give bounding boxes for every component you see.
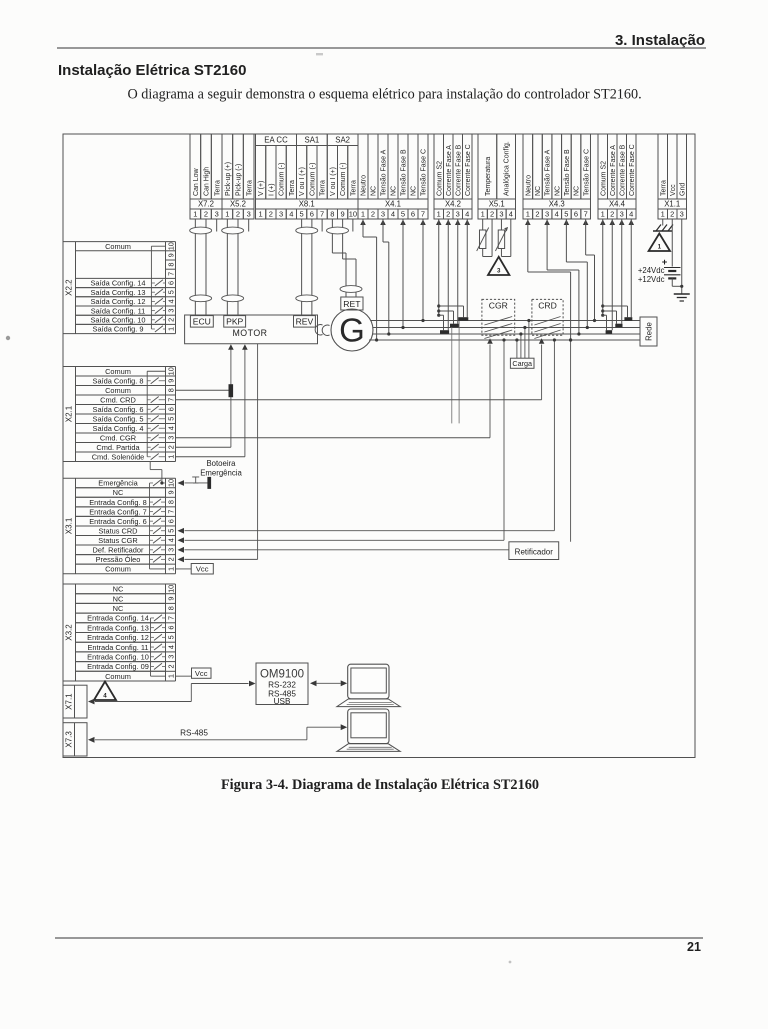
svg-text:Botoeira: Botoeira xyxy=(206,459,236,468)
svg-text:X2.1: X2.1 xyxy=(65,405,74,422)
svg-text:2: 2 xyxy=(166,445,175,449)
svg-text:NC: NC xyxy=(574,186,581,196)
svg-text:Comum (-): Comum (-) xyxy=(340,163,347,196)
svg-text:NC: NC xyxy=(113,604,124,613)
svg-text:2: 2 xyxy=(166,664,175,668)
svg-text:Entrada Config. 09: Entrada Config. 09 xyxy=(87,662,149,671)
svg-text:SA1: SA1 xyxy=(305,136,320,145)
svg-text:NC: NC xyxy=(113,488,124,497)
svg-text:NC: NC xyxy=(371,186,378,196)
svg-text:Comum (-): Comum (-) xyxy=(309,163,316,196)
svg-text:Analógica Config.: Analógica Config. xyxy=(504,141,511,196)
svg-text:X4.2: X4.2 xyxy=(445,200,461,209)
svg-text:I (+): I (+) xyxy=(268,183,275,196)
svg-text:X4.1: X4.1 xyxy=(385,200,401,209)
svg-text:Cmd. Solenóide: Cmd. Solenóide xyxy=(92,452,145,461)
svg-text:6: 6 xyxy=(574,210,578,219)
svg-text:USB: USB xyxy=(274,697,291,706)
svg-text:Pressão Óleo: Pressão Óleo xyxy=(96,555,141,564)
svg-text:Tensão Fase A: Tensão Fase A xyxy=(545,149,552,196)
svg-text:2: 2 xyxy=(610,210,614,219)
svg-text:1: 1 xyxy=(361,210,365,219)
svg-text:2: 2 xyxy=(166,557,175,561)
svg-text:Entrada Config. 12: Entrada Config. 12 xyxy=(87,633,149,642)
svg-text:X4.3: X4.3 xyxy=(549,200,565,209)
svg-text:8: 8 xyxy=(166,388,175,392)
svg-text:Saída Config. 11: Saída Config. 11 xyxy=(91,306,146,315)
svg-text:1: 1 xyxy=(166,674,175,678)
svg-text:ECU: ECU xyxy=(193,317,211,327)
svg-text:Status CRD: Status CRD xyxy=(98,526,137,535)
svg-text:Comum S2: Comum S2 xyxy=(600,161,607,196)
svg-text:Entrada Config. 13: Entrada Config. 13 xyxy=(87,623,149,632)
svg-text:4: 4 xyxy=(166,538,175,542)
svg-text:10: 10 xyxy=(166,367,175,375)
svg-text:Pick-up (-): Pick-up (-) xyxy=(236,164,243,196)
svg-text:1: 1 xyxy=(658,244,662,251)
svg-text:Comum (-): Comum (-) xyxy=(279,163,286,196)
svg-text:Entrada Config. 7: Entrada Config. 7 xyxy=(89,507,147,516)
svg-text:Terra: Terra xyxy=(660,180,667,196)
svg-text:3: 3 xyxy=(247,210,251,219)
svg-text:CRD: CRD xyxy=(538,300,557,310)
svg-text:1: 1 xyxy=(166,567,175,571)
svg-text:X3.1: X3.1 xyxy=(65,517,74,534)
svg-text:X5.2: X5.2 xyxy=(230,200,246,209)
svg-text:Retificador: Retificador xyxy=(515,548,554,557)
svg-text:5: 5 xyxy=(300,210,304,219)
svg-text:1: 1 xyxy=(601,210,605,219)
svg-text:7: 7 xyxy=(166,510,175,514)
svg-text:X4.4: X4.4 xyxy=(609,200,626,209)
svg-text:2: 2 xyxy=(535,210,539,219)
svg-text:X3.2: X3.2 xyxy=(65,624,74,641)
svg-text:NC: NC xyxy=(113,594,124,603)
svg-text:+12Vdc: +12Vdc xyxy=(638,275,665,284)
svg-text:Terra: Terra xyxy=(246,180,253,196)
svg-text:1: 1 xyxy=(166,455,175,459)
svg-text:SA2: SA2 xyxy=(335,136,350,145)
svg-text:4: 4 xyxy=(509,210,513,219)
svg-text:X5.1: X5.1 xyxy=(489,200,505,209)
svg-text:NC: NC xyxy=(554,186,561,196)
svg-text:Cmd. CRD: Cmd. CRD xyxy=(100,395,136,404)
svg-text:5: 5 xyxy=(166,417,175,421)
svg-text:Vcc: Vcc xyxy=(195,669,208,678)
svg-text:1: 1 xyxy=(193,210,197,219)
svg-text:7: 7 xyxy=(166,398,175,402)
svg-text:Saída Config. 8: Saída Config. 8 xyxy=(93,376,144,385)
svg-text:X7.3: X7.3 xyxy=(65,731,74,748)
svg-text:X2.2: X2.2 xyxy=(65,279,74,296)
svg-text:NC: NC xyxy=(113,585,124,594)
svg-text:OM9100: OM9100 xyxy=(260,669,304,681)
svg-text:Saída Config. 5: Saída Config. 5 xyxy=(93,414,144,423)
svg-text:10: 10 xyxy=(166,585,175,593)
svg-text:Corrente Fase B: Corrente Fase B xyxy=(619,144,626,196)
svg-text:Emergência: Emergência xyxy=(98,479,138,488)
svg-text:6: 6 xyxy=(310,210,314,219)
svg-text:3: 3 xyxy=(499,210,503,219)
svg-text:Def. Retificador: Def. Retificador xyxy=(93,546,144,555)
svg-text:Corrente Fase A: Corrente Fase A xyxy=(610,145,617,196)
svg-text:Temperatura: Temperatura xyxy=(485,157,492,196)
svg-text:Comum: Comum xyxy=(105,242,131,251)
svg-text:2: 2 xyxy=(204,210,208,219)
svg-text:7: 7 xyxy=(421,210,425,219)
svg-text:4: 4 xyxy=(391,210,395,219)
svg-text:9: 9 xyxy=(341,210,345,219)
svg-text:NC: NC xyxy=(411,186,418,196)
svg-text:Tensão Fase B: Tensão Fase B xyxy=(401,149,408,196)
svg-text:21: 21 xyxy=(687,940,701,954)
svg-text:8: 8 xyxy=(330,210,334,219)
svg-text:Entrada Config. 8: Entrada Config. 8 xyxy=(89,498,147,507)
svg-text:4: 4 xyxy=(166,299,175,303)
svg-text:RET: RET xyxy=(343,299,361,309)
svg-text:NC: NC xyxy=(535,186,542,196)
svg-text:9: 9 xyxy=(166,597,175,601)
svg-text:5: 5 xyxy=(166,635,175,639)
svg-text:6: 6 xyxy=(166,407,175,411)
svg-text:Instalação Elétrica ST2160: Instalação Elétrica ST2160 xyxy=(58,62,246,79)
svg-text:Saída Config. 14: Saída Config. 14 xyxy=(90,279,145,288)
svg-text:3: 3 xyxy=(166,309,175,313)
svg-text:Saída Config. 4: Saída Config. 4 xyxy=(93,424,144,433)
svg-text:V ou I (+): V ou I (+) xyxy=(330,167,337,196)
svg-text:REV: REV xyxy=(296,317,314,327)
svg-text:Comum: Comum xyxy=(105,565,131,574)
svg-text:Terra: Terra xyxy=(289,180,296,196)
svg-text:2: 2 xyxy=(446,210,450,219)
svg-text:3: 3 xyxy=(381,210,385,219)
svg-text:Gnd: Gnd xyxy=(679,183,686,196)
svg-text:Comum S2: Comum S2 xyxy=(436,161,443,196)
svg-text:MOTOR: MOTOR xyxy=(232,328,267,338)
svg-text:6: 6 xyxy=(166,281,175,285)
svg-text:Corrente Fase B: Corrente Fase B xyxy=(455,144,462,196)
svg-text:X7.2: X7.2 xyxy=(198,200,214,209)
svg-text:3. Instalação: 3. Instalação xyxy=(615,32,705,49)
svg-text:3: 3 xyxy=(545,210,549,219)
svg-text:Rede: Rede xyxy=(644,322,653,341)
svg-text:V (+): V (+) xyxy=(258,181,265,196)
svg-text:+24Vdc: +24Vdc xyxy=(638,266,665,275)
svg-text:3: 3 xyxy=(279,210,283,219)
svg-text:6: 6 xyxy=(166,626,175,630)
svg-text:Saída Config. 10: Saída Config. 10 xyxy=(90,316,145,325)
svg-text:1: 1 xyxy=(259,210,263,219)
svg-text:4: 4 xyxy=(629,210,633,219)
svg-text:Can Low: Can Low xyxy=(193,167,200,196)
svg-text:Saída Config. 13: Saída Config. 13 xyxy=(90,288,145,297)
svg-text:10: 10 xyxy=(166,479,175,487)
svg-text:Tensão Fase C: Tensão Fase C xyxy=(421,149,428,196)
svg-text:9: 9 xyxy=(166,490,175,494)
svg-text:1: 1 xyxy=(526,210,530,219)
svg-text:G: G xyxy=(339,312,365,349)
svg-text:Cmd. CGR: Cmd. CGR xyxy=(100,433,136,442)
svg-text:9: 9 xyxy=(166,379,175,383)
svg-text:RS-232: RS-232 xyxy=(268,681,296,690)
svg-text:CGR: CGR xyxy=(489,300,508,310)
svg-text:1: 1 xyxy=(481,210,485,219)
svg-text:4: 4 xyxy=(166,645,175,649)
svg-text:1: 1 xyxy=(225,210,229,219)
svg-text:Tensão Fase C: Tensão Fase C xyxy=(583,149,590,196)
svg-text:Status CGR: Status CGR xyxy=(98,536,137,545)
svg-text:O diagrama a seguir demonstra: O diagrama a seguir demonstra o esquema … xyxy=(128,87,642,103)
svg-text:4: 4 xyxy=(103,693,107,700)
svg-text:3: 3 xyxy=(215,210,219,219)
svg-text:PKP: PKP xyxy=(226,317,243,327)
svg-text:7: 7 xyxy=(320,210,324,219)
svg-text:9: 9 xyxy=(166,253,175,257)
svg-text:V ou I (+): V ou I (+) xyxy=(299,167,306,196)
svg-text:2: 2 xyxy=(490,210,494,219)
svg-text:Pick-up (+): Pick-up (+) xyxy=(225,162,232,196)
svg-text:3: 3 xyxy=(166,655,175,659)
svg-text:8: 8 xyxy=(166,500,175,504)
svg-text:EA CC: EA CC xyxy=(264,136,288,145)
svg-text:Neutro: Neutro xyxy=(361,175,368,196)
svg-text:4: 4 xyxy=(555,210,559,219)
svg-text:Neutro: Neutro xyxy=(525,175,532,196)
svg-text:Saída Config. 12: Saída Config. 12 xyxy=(90,297,145,306)
svg-text:Saída Config. 6: Saída Config. 6 xyxy=(93,405,144,414)
svg-text:3: 3 xyxy=(497,268,501,275)
svg-text:Terra: Terra xyxy=(320,180,327,196)
svg-text:Entrada Config. 14: Entrada Config. 14 xyxy=(87,614,149,623)
svg-text:Cmd. Partida: Cmd. Partida xyxy=(96,443,140,452)
svg-text:5: 5 xyxy=(166,529,175,533)
svg-text:5: 5 xyxy=(401,210,405,219)
svg-text:Comum: Comum xyxy=(105,367,131,376)
svg-text:Tensão Fase B: Tensão Fase B xyxy=(564,149,571,196)
svg-text:Vcc: Vcc xyxy=(670,184,677,196)
svg-text:1: 1 xyxy=(661,210,665,219)
svg-text:Entrada Config. 6: Entrada Config. 6 xyxy=(89,517,147,526)
svg-text:NC: NC xyxy=(391,186,398,196)
svg-text:10: 10 xyxy=(166,242,175,250)
svg-text:2: 2 xyxy=(269,210,273,219)
svg-text:Figura 3-4. Diagrama de Instal: Figura 3-4. Diagrama de Instalação Elétr… xyxy=(221,777,539,793)
svg-text:3: 3 xyxy=(620,210,624,219)
svg-text:Can High: Can High xyxy=(204,167,211,196)
svg-text:Carga: Carga xyxy=(512,359,532,368)
svg-text:Tensão Fase A: Tensão Fase A xyxy=(381,149,388,196)
svg-text:8: 8 xyxy=(166,606,175,610)
svg-text:Comum: Comum xyxy=(105,672,131,681)
svg-text:3: 3 xyxy=(166,436,175,440)
svg-text:7: 7 xyxy=(166,616,175,620)
svg-text:Entrada Config. 10: Entrada Config. 10 xyxy=(87,652,149,661)
svg-text:4: 4 xyxy=(289,210,293,219)
svg-text:Terra: Terra xyxy=(214,180,221,196)
svg-text:X7.1: X7.1 xyxy=(65,693,74,710)
svg-text:2: 2 xyxy=(670,210,674,219)
svg-text:6: 6 xyxy=(166,519,175,523)
svg-text:4: 4 xyxy=(166,426,175,430)
svg-text:2: 2 xyxy=(166,318,175,322)
svg-text:10: 10 xyxy=(349,210,357,219)
svg-text:Saída Config. 9: Saída Config. 9 xyxy=(93,325,144,334)
svg-text:RS-485: RS-485 xyxy=(180,729,208,738)
svg-text:Terra: Terra xyxy=(350,180,357,196)
svg-text:Corrente Fase A: Corrente Fase A xyxy=(446,145,453,196)
svg-text:8: 8 xyxy=(166,263,175,267)
svg-text:4: 4 xyxy=(465,210,469,219)
svg-text:X8.1: X8.1 xyxy=(299,200,315,209)
svg-text:5: 5 xyxy=(564,210,568,219)
svg-text:Corrente Fase C: Corrente Fase C xyxy=(629,144,636,196)
svg-text:2: 2 xyxy=(236,210,240,219)
svg-text:Entrada Config. 11: Entrada Config. 11 xyxy=(87,643,148,652)
svg-text:1: 1 xyxy=(437,210,441,219)
svg-text:5: 5 xyxy=(166,290,175,294)
svg-text:Comum: Comum xyxy=(105,386,131,395)
svg-text:3: 3 xyxy=(166,548,175,552)
svg-text:7: 7 xyxy=(584,210,588,219)
svg-text:Emergência: Emergência xyxy=(200,469,242,478)
svg-text:6: 6 xyxy=(411,210,415,219)
svg-text:1: 1 xyxy=(166,327,175,331)
svg-text:3: 3 xyxy=(680,210,684,219)
svg-text:7: 7 xyxy=(166,272,175,276)
svg-text:Corrente Fase C: Corrente Fase C xyxy=(465,144,472,196)
svg-text:X1.1: X1.1 xyxy=(664,200,680,209)
svg-text:Vcc: Vcc xyxy=(196,565,209,574)
svg-text:3: 3 xyxy=(456,210,460,219)
svg-text:2: 2 xyxy=(371,210,375,219)
